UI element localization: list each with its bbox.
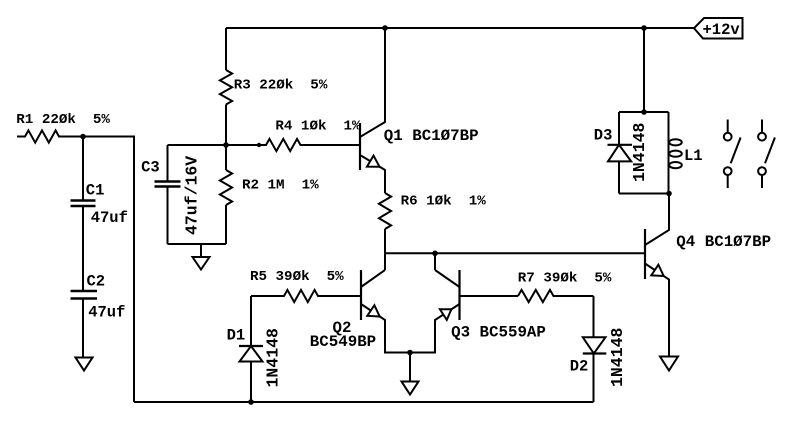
transistor Q3 base bar <box>458 270 460 320</box>
wire R1 node to left drop <box>83 137 134 403</box>
power flag +12v <box>694 18 743 39</box>
transistor Q3 emitter <box>410 304 460 353</box>
svg-text:R2 1M 1%: R2 1M 1% <box>242 178 319 194</box>
relay contact switch 1 <box>724 120 741 189</box>
wire R5 corner to D1 <box>250 296 252 346</box>
transistor Q4 emitter arrow <box>651 265 663 276</box>
svg-text:D1: D1 <box>227 327 246 345</box>
label R6 10k 1% <box>401 194 487 210</box>
transistor Q4 emitter <box>645 264 669 357</box>
ground below Q4 <box>660 357 678 371</box>
label L1 <box>684 147 703 165</box>
resistor R1 <box>17 130 83 142</box>
transistor Q2 base bar <box>360 270 362 320</box>
svg-text:+12v: +12v <box>703 21 741 39</box>
label C2 <box>87 273 106 291</box>
svg-text:BC549BP: BC549BP <box>310 333 376 351</box>
wire D3 to box bottom <box>618 162 620 194</box>
svg-text:C1: C1 <box>86 182 105 200</box>
resistor R5 <box>251 290 361 302</box>
svg-text:R5 39Øk 5%: R5 39Øk 5% <box>250 269 344 285</box>
resistor R2 <box>220 170 232 205</box>
wire D1 to bottom rail <box>250 362 252 403</box>
svg-text:1N4148: 1N4148 <box>264 328 283 388</box>
label R5 390k 5% <box>250 269 344 285</box>
wire R2 to bottom rail <box>225 205 227 244</box>
wire C3 bottom rail <box>168 243 227 245</box>
label R1 220k 5% <box>16 112 110 128</box>
node junction Q3 collector <box>432 251 438 257</box>
svg-text:47uf/16V: 47uf/16V <box>183 156 202 235</box>
label D3 type 1N4148 <box>630 122 649 182</box>
svg-text:Q4 BC1Ø7BP: Q4 BC1Ø7BP <box>676 233 771 251</box>
transistor Q3 emitter arrow <box>440 309 452 320</box>
wire node to R2 <box>225 145 227 170</box>
wire C2 to ground <box>82 299 84 358</box>
label C1 <box>86 182 105 200</box>
wire C1 to C2 <box>82 206 84 291</box>
node junction relay feed <box>641 109 647 115</box>
svg-text:1N4148: 1N4148 <box>630 122 649 182</box>
svg-text:R6 1Øk 1%: R6 1Øk 1% <box>401 194 487 210</box>
relay contact switch 2 <box>758 120 775 189</box>
wire ground stem Q2/Q3 <box>409 353 411 382</box>
node junction D1 / bottom rail <box>248 399 254 405</box>
wire R6 to row <box>384 229 386 253</box>
svg-text:D3: D3 <box>594 127 613 145</box>
transistor Q1 base bar <box>359 123 361 170</box>
node junction emitters / ground <box>407 350 413 356</box>
svg-text:Q3 BC559AP: Q3 BC559AP <box>451 323 546 341</box>
label R3 220k 5% <box>234 78 328 94</box>
wire node to R4 <box>226 144 259 146</box>
svg-text:Q1 BC1Ø7BP: Q1 BC1Ø7BP <box>384 127 479 145</box>
node junction top rail / relay feed <box>641 25 647 31</box>
wire D3 branch top <box>618 112 620 145</box>
wire ground stem R2/C3 <box>200 244 202 257</box>
diode D2 cathode bar <box>583 352 607 354</box>
inductor L1 relay coil <box>669 112 682 194</box>
wire Q3 base to R7 <box>460 295 519 297</box>
transistor Q3 collector <box>435 270 460 287</box>
label R2 1M 1% <box>242 178 319 194</box>
svg-text:R3 22Øk 5%: R3 22Øk 5% <box>234 78 328 94</box>
transistor Q4 base bar <box>644 229 646 279</box>
diode D1 cathode bar <box>239 345 263 347</box>
label Q2 type BC549BP <box>310 333 376 351</box>
svg-text:47uf: 47uf <box>91 209 128 227</box>
label D2 <box>570 358 589 376</box>
node small junction R4 row <box>257 143 261 147</box>
transistor Q1 emitter <box>360 155 385 193</box>
node junction R3/R2/R4/C3 <box>223 142 229 148</box>
svg-text:R7 39Øk 5%: R7 39Øk 5% <box>518 271 612 287</box>
transistor Q2 emitter <box>361 304 410 353</box>
wire D2 to bottom rail <box>593 354 595 403</box>
label C1 value 47uf <box>91 209 128 227</box>
wire bottom rail <box>134 401 594 403</box>
label Q1 BC107BP <box>384 127 479 145</box>
label Q4 BC107BP <box>676 233 771 251</box>
capacitor C3 <box>155 145 181 244</box>
wire Q3 collector drop <box>434 253 436 270</box>
transistor Q2 collector <box>361 270 385 287</box>
diode D2 <box>583 337 606 353</box>
diode D3 cathode bar <box>608 144 633 146</box>
ground below R2/C3 <box>193 257 210 270</box>
svg-text:47uf: 47uf <box>88 304 125 322</box>
node junction top rail / Q1 collector <box>382 25 388 31</box>
node junction R1 / C1 <box>80 134 86 140</box>
label D1 type 1N4148 <box>264 328 283 388</box>
svg-text:R1 22Øk 5%: R1 22Øk 5% <box>16 112 110 128</box>
resistor R3 <box>220 70 232 105</box>
svg-text:1N4148: 1N4148 <box>608 327 627 387</box>
label R7 390k 5% <box>518 271 612 287</box>
svg-text:L1: L1 <box>684 147 703 165</box>
wire top rail to R3 <box>225 28 227 70</box>
label Q2 <box>333 319 352 337</box>
capacitor C1 <box>71 137 96 207</box>
diode D1 <box>240 346 263 362</box>
svg-text:C3: C3 <box>141 159 160 177</box>
label C3 value 47uf/16V <box>183 156 202 235</box>
diode D3 <box>608 145 631 162</box>
capacitor C2 <box>71 291 98 299</box>
wire C3 top to node <box>168 144 227 146</box>
label R4 10k 1% <box>275 119 361 135</box>
wire R7 corner to D2 <box>593 296 595 338</box>
wire Q2 collector drop <box>384 253 386 270</box>
wire top +12V rail <box>226 27 694 29</box>
wire relay box top <box>619 111 669 113</box>
wire emitter row to Q4 base <box>385 252 645 254</box>
wire +12v drop to relay box <box>643 28 645 112</box>
ground below Q2/Q3 <box>402 382 419 395</box>
transistor Q1 collector <box>360 28 385 137</box>
svg-text:D2: D2 <box>570 358 589 376</box>
transistor Q2 emitter arrow <box>367 305 379 316</box>
label C3 <box>141 159 160 177</box>
wire R3 to node <box>225 105 227 146</box>
svg-text:C2: C2 <box>87 273 106 291</box>
resistor R6 <box>379 193 391 229</box>
svg-text:R4 1Øk 1%: R4 1Øk 1% <box>275 119 361 135</box>
label D3 <box>594 127 613 145</box>
ground below C2 <box>76 358 93 371</box>
transistor Q4 collector <box>645 194 669 246</box>
node junction L1 / Q4 collector <box>666 191 672 197</box>
label D1 <box>227 327 246 345</box>
label Q3 BC559AP <box>451 323 546 341</box>
transistor Q1 emitter arrow <box>367 156 380 167</box>
resistor R7 <box>518 290 594 302</box>
wire relay box bottom <box>619 193 669 195</box>
resistor R4 <box>259 139 360 151</box>
label C2 value 47uf <box>88 304 125 322</box>
label D2 type 1N4148 <box>608 327 627 387</box>
